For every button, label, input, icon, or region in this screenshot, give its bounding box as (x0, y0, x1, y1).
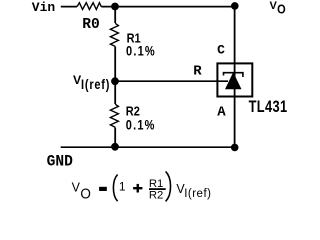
formula VI(ref) (176, 182, 211, 200)
svg-text:GND: GND (47, 152, 73, 171)
junction node on ground rail (111, 143, 119, 151)
junction anode corner (231, 144, 239, 152)
resistor R1 (110, 23, 155, 59)
formula close paren (166, 171, 171, 201)
formula equals (99, 187, 107, 191)
svg-text:Vin: Vin (32, 0, 56, 15)
wire reference (115, 80, 228, 82)
svg-text:TL431: TL431 (249, 97, 288, 116)
svg-text:O: O (277, 1, 286, 16)
svg-text:I(ref): I(ref) (184, 188, 211, 200)
wire divider mid (114, 47, 116, 105)
formula plus (133, 184, 142, 193)
wire divider top stub (114, 6, 116, 23)
svg-text:A: A (217, 104, 226, 120)
svg-text:1: 1 (119, 180, 126, 194)
svg-text:V: V (72, 180, 81, 194)
formula open paren (113, 175, 117, 202)
svg-text:R: R (193, 64, 202, 80)
svg-text:C: C (217, 42, 225, 57)
svg-text:R2: R2 (149, 189, 163, 201)
formula fraction R1/R2 (149, 178, 166, 201)
svg-text:0.1%: 0.1% (126, 43, 156, 59)
svg-text:O: O (80, 185, 91, 202)
wire divider bottom stub (114, 128, 116, 148)
svg-text:I(ref): I(ref) (81, 77, 110, 93)
wire cathode/anode vertical (234, 6, 236, 147)
svg-text:0.1%: 0.1% (126, 117, 156, 133)
ground rail (61, 146, 235, 148)
resistor R2 (110, 104, 155, 133)
junction corner to TL431 cathode (231, 2, 239, 10)
junction node top of divider (111, 3, 119, 11)
TL431 U1 body (217, 63, 252, 96)
wire Vin lead (61, 6, 77, 8)
node VI(ref) (73, 73, 119, 92)
wire top rail (101, 6, 234, 8)
formula VO (72, 180, 91, 202)
resistor R0 (77, 3, 101, 34)
svg-text:R0: R0 (82, 17, 100, 33)
net label VO (270, 0, 286, 17)
